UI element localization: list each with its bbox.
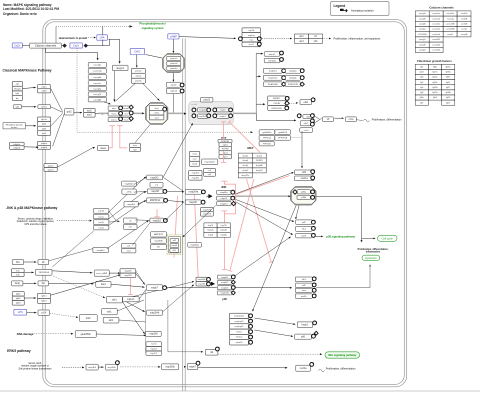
svg-text:mapk9: mapk9: [221, 198, 228, 200]
trunk arrow to mnk1 stack: [256, 103, 264, 105]
svg-text:pla2g4b: pla2g4b: [289, 78, 297, 80]
ligands pdgf stack: [10, 142, 25, 149]
svg-text:map2k5b: map2k5b: [165, 367, 175, 369]
wire tak1 to map2k3: [122, 282, 193, 299]
svg-text:fgfr1a: fgfr1a: [41, 118, 47, 121]
state diamond atf6: [314, 331, 318, 335]
receptor tgfbr stack: [38, 293, 51, 303]
wire LPA elbow to rasgrp: [108, 39, 119, 62]
wire dotted G-protein to LPA: [87, 37, 97, 39]
svg-text:mapk10: mapk10: [220, 203, 228, 205]
svg-text:rac1b: rac1b: [98, 221, 104, 224]
svg-text:PPP3CA: PPP3CA: [263, 137, 272, 140]
svg-text:cd14: cd14: [41, 313, 47, 315]
svg-text:mapk7: mapk7: [189, 366, 197, 368]
svg-text:Serum, cytotoxic drugs, irradi: Serum, cytotoxic drugs, irradiation,: [18, 217, 54, 220]
svg-text:igf1ra: igf1ra: [42, 106, 48, 109]
state circle rap1 top left: [239, 37, 243, 41]
arrow into p38 stack: [211, 282, 215, 286]
svg-text:fgf12: fgf12: [446, 87, 450, 89]
state circles elk cluster: [297, 114, 301, 118]
gene ecsit variant: [94, 270, 109, 276]
kinase mapkapk stack: [230, 313, 249, 345]
gene tab1: [102, 309, 118, 315]
svg-text:map2k1: map2k1: [199, 110, 207, 112]
svg-text:cacna1aa: cacna1aa: [432, 13, 440, 15]
svg-text:mapkapk5: mapkapk5: [235, 326, 244, 328]
svg-text:elk1: elk1: [299, 36, 304, 38]
backbone thick line ras-raf: [98, 112, 143, 114]
kinase map2k4a: [185, 190, 201, 195]
kinase map4k1: [93, 248, 109, 253]
svg-text:fgf8: fgf8: [420, 92, 423, 94]
svg-text:traf2: traf2: [86, 317, 91, 320]
svg-text:smad4: smad4: [172, 245, 178, 247]
svg-text:Proliferation, differentiation: Proliferation, differentiation: [326, 368, 356, 371]
wire p38 stack to tf arrow up: [235, 238, 289, 276]
wire dashed stress to cdc42: [57, 220, 90, 222]
state circle map3k2: [164, 219, 168, 223]
wire Ca2+ to LPA elbow: [88, 39, 109, 45]
tf cfos box: [300, 128, 313, 133]
svg-text:MAP3K12: MAP3K12: [150, 199, 161, 202]
svg-text:gadd45?b: gadd45?b: [278, 132, 288, 134]
wire mekk2 to mekk3: [98, 366, 103, 368]
wire trunk to elk cluster: [256, 113, 294, 120]
svg-text:tab1: tab1: [107, 311, 112, 314]
svg-text:atf6: atf6: [301, 336, 306, 339]
svg-text:Apoptosis: Apoptosis: [365, 256, 377, 260]
svg-text:hrasa: hrasa: [123, 107, 129, 110]
wire fgf to fgfr: [26, 125, 36, 127]
svg-text:cacng2a: cacng2a: [93, 88, 102, 90]
gene map4k 2-stack: [189, 171, 202, 181]
svg-text:mknk2b: mknk2b: [268, 60, 276, 62]
wire JNK to tf group: [184, 206, 216, 237]
wire channels to cacng stack: [46, 48, 98, 59]
svg-text:inflammation: inflammation: [366, 251, 381, 254]
svg-text:map2k7b: map2k7b: [203, 214, 212, 216]
wire tgfb to tgfbr: [24, 297, 36, 299]
svg-text:map2k4b: map2k4b: [150, 313, 160, 315]
svg-text:nrasa: nrasa: [111, 113, 117, 116]
gene crk small: [150, 182, 163, 187]
state circles mapkapk: [249, 314, 253, 318]
inhibition red mkp to pincer right: [247, 179, 272, 262]
svg-text:heatshock, reactive oxygen spe: heatshock, reactive oxygen species,: [17, 220, 55, 223]
kinase PKC stack: [131, 68, 145, 83]
svg-text:cacng1: cacng1: [461, 29, 467, 31]
svg-text:cacnb3b: cacnb3b: [461, 18, 468, 20]
svg-text:fgf21: fgf21: [420, 72, 424, 74]
svg-text:grb2: grb2: [67, 111, 72, 114]
svg-text:cacnb4b: cacnb4b: [461, 24, 468, 26]
backbone thick line scaffold-trunk: [233, 112, 257, 114]
inhibition red map2k4a down 2: [194, 195, 198, 281]
svg-text:MKP: MKP: [247, 146, 253, 150]
receptor tnfrsf1a: [35, 269, 52, 275]
svg-text:fgf24: fgf24: [446, 82, 450, 84]
svg-text:daxx: daxx: [101, 283, 107, 286]
link Wnt signaling pathway: [325, 352, 360, 358]
node Ca2+ inside: [70, 43, 83, 48]
svg-text:cacng2a: cacng2a: [419, 39, 426, 41]
kinase p38 isoform stack: [217, 275, 232, 279]
svg-text:signaling system: signaling system: [142, 26, 164, 30]
svg-text:egf: egf: [16, 84, 19, 86]
svg-text:ecsit_va8B8: ecsit_va8B8: [96, 272, 108, 275]
wire mapk7 to mef2: [198, 366, 286, 369]
svg-text:ERK5 pathway: ERK5 pathway: [7, 349, 31, 353]
svg-text:LPA: LPA: [100, 36, 105, 40]
receptor igf1r: [38, 105, 51, 109]
svg-text:sos2: sos2: [87, 115, 93, 117]
svg-text:prkcg: prkcg: [136, 75, 142, 78]
svg-text:map3k7: map3k7: [151, 191, 160, 193]
svg-text:crk: crk: [208, 170, 211, 172]
gene table fgf: [415, 64, 455, 105]
state circle hspb1: [313, 321, 317, 325]
svg-text:map2k1: map2k1: [269, 71, 278, 73]
svg-text:p38 signaling pathway: p38 signaling pathway: [326, 234, 355, 238]
svg-text:mos: mos: [133, 145, 137, 147]
svg-text:Proliferation, differentiation: Proliferation, differentiation,: [358, 248, 389, 251]
svg-text:map2k2a: map2k2a: [268, 78, 278, 80]
svg-text:dusp1: dusp1: [243, 155, 249, 157]
svg-text:PPP3R1B: PPP3R1B: [278, 138, 288, 140]
svg-text:Fibroblast growth: Fibroblast growth: [6, 123, 24, 126]
svg-text:cacna1da: cacna1da: [432, 29, 440, 31]
svg-text:map4k6: map4k6: [192, 178, 200, 180]
gene mapk7 box: [147, 285, 163, 291]
wire dotted-line stub to LPA top: [102, 26, 104, 34]
svg-text:rap1b: rap1b: [248, 29, 254, 32]
svg-text:fgf10a: fgf10a: [433, 77, 438, 79]
state circle MAP3K12: [164, 199, 168, 203]
receptor il1r: [38, 260, 49, 265]
wire dotted to PI signaling: [56, 25, 129, 27]
gene tab2: [103, 317, 119, 323]
wires adapters to erk5 column: [135, 273, 144, 284]
receptor LPA: [97, 35, 108, 40]
receptor cd14: [38, 310, 50, 315]
svg-text:srf: srf: [327, 118, 330, 121]
kinase JNK stack: [217, 190, 232, 194]
svg-text:rhoab: rhoab: [192, 163, 198, 165]
svg-text:cacng7b: cacng7b: [93, 94, 102, 96]
hsc70 stack: [146, 342, 162, 347]
inhibition red mkp to p38 stack: [230, 179, 254, 271]
svg-text:cacna2d2: cacna2d2: [432, 39, 440, 41]
wire mapkapk to atf6: [254, 330, 291, 336]
svg-text:tgfbr1: tgfbr1: [41, 295, 47, 298]
svg-text:cacng4b: cacng4b: [93, 77, 102, 79]
wire cAMP to rap1 stack: [179, 37, 234, 39]
wires map3k to map2k4: [167, 190, 183, 192]
svg-text:cacna2d4: cacna2d4: [432, 44, 440, 46]
svg-text:rap1aa: rap1aa: [248, 34, 256, 37]
trunk arrow to mnk: [256, 53, 261, 55]
adapter 2stack low: [122, 243, 136, 248]
receptor fgfr stack: [38, 117, 51, 135]
svg-text:fgf20a: fgf20a: [446, 67, 451, 69]
svg-text:gna13: gna13: [48, 169, 55, 171]
svg-text:mapk1: mapk1: [220, 116, 227, 118]
state diamond p38: [293, 190, 297, 194]
svg-text:cacna1sb: cacna1sb: [432, 34, 440, 36]
wire elbow into nlk: [168, 300, 201, 352]
gene ras column 2: [121, 106, 130, 110]
RAF subunits: [149, 106, 164, 120]
svg-text:cdc42: cdc42: [98, 211, 105, 213]
svg-text:creb1a: creb1a: [301, 177, 309, 180]
kinase mapk3 in scaffold: [216, 108, 229, 112]
ligand tgfb stack: [12, 292, 24, 306]
svg-text:cacnb1: cacnb1: [447, 34, 453, 36]
receptor egfr stack: [38, 85, 51, 93]
svg-text:mapk8a: mapk8a: [220, 192, 228, 194]
tf srf box: [323, 117, 334, 122]
svg-text:DNA damage: DNA damage: [17, 332, 34, 336]
gene gadd45 table: [259, 130, 275, 135]
gene mekk3 box: [106, 364, 118, 370]
svg-text:mef2c: mef2c: [301, 296, 308, 298]
ligands egf stack: [12, 81, 22, 100]
svg-text:fgf5: fgf5: [420, 82, 423, 84]
node cAMP: [168, 34, 179, 39]
scaffold container: [189, 101, 234, 124]
svg-text:dusp2: dusp2: [257, 155, 263, 157]
wire dotted nlk to wnt: [218, 353, 319, 355]
wire mapk7 down: [145, 291, 147, 353]
wire cAMP down to PKA: [172, 39, 174, 52]
svg-text:Organism: Danio rerio: Organism: Danio rerio: [3, 12, 37, 16]
tf atf2 box1: [295, 170, 314, 175]
wire JNK to atf stack low: [236, 200, 293, 222]
gene tak1: [107, 297, 123, 303]
complex PKA octagon: [162, 54, 184, 73]
gene map2k5 bottom: [162, 364, 179, 370]
svg-text:cacng8b: cacng8b: [93, 99, 102, 101]
bottom separator line: [0, 390, 480, 392]
svg-text:p38a: p38a: [301, 192, 307, 194]
svg-text:tab2: tab2: [109, 319, 114, 322]
state circle atf6: [312, 334, 316, 338]
wire p38 right elbow: [316, 197, 361, 241]
state circle mapk7: [163, 286, 167, 290]
trunk vertical line: [255, 53, 257, 113]
svg-text:il1r: il1r: [42, 261, 45, 264]
junction arrow to crk stack: [109, 211, 117, 221]
phosphatase PTP header: [218, 139, 232, 143]
svg-text:Cell cycle: Cell cycle: [382, 237, 394, 241]
ligand il1b: [12, 260, 23, 265]
svg-text:Phosphatidylinositol: Phosphatidylinositol: [139, 22, 166, 26]
node DAG: [130, 49, 145, 55]
wire LPA stub down: [102, 40, 104, 46]
ligand igf1: [13, 105, 21, 109]
receptor fas: [38, 281, 49, 286]
svg-text:PLA2G12B: PLA2G12B: [288, 83, 299, 86]
svg-text:dusp8b: dusp8b: [256, 165, 263, 167]
svg-text:mapkapk5: mapkapk5: [205, 162, 216, 164]
svg-text:rac1a: rac1a: [98, 215, 104, 218]
gene nlk box: [205, 349, 218, 355]
svg-text:kras: kras: [112, 107, 116, 110]
svg-text:rap1b: rap1b: [171, 84, 177, 87]
state circle raf: [163, 107, 167, 111]
wire cacng to ras: [104, 102, 110, 104]
kinase map3k13 stack: [151, 232, 167, 237]
svg-text:TNFRSF1A: TNFRSF1A: [39, 271, 50, 274]
state circle elk4: [311, 98, 315, 102]
svg-text:MAP3K13: MAP3K13: [154, 233, 164, 236]
inhibition red map2k4a down 1: [174, 196, 178, 258]
svg-text:prkacab: prkacab: [170, 63, 178, 65]
svg-text:crkl: crkl: [129, 227, 133, 229]
svg-text:Proliferation, differentiation: Proliferation, differentiation: [372, 118, 402, 121]
backbone thick line raf-scaffold: [168, 112, 184, 114]
link p38 signaling pathway: [316, 235, 321, 237]
svg-text:UPS and other stress: UPS and other stress: [24, 223, 47, 226]
backbone thick jnk-p38 line: [236, 195, 289, 197]
inhibition red mos to ras: [120, 126, 128, 148]
p38 subunit b: [297, 195, 310, 199]
svg-text:JNK & p38 MAPKinase pathway: JNK & p38 MAPKinase pathway: [6, 206, 57, 210]
wire fos to squiggle: [356, 120, 363, 121]
gene elk4 box: [300, 100, 311, 105]
svg-text:Srk tyrosine kinase downstream: Srk tyrosine kinase downstream: [19, 368, 52, 371]
svg-text:mras: mras: [124, 118, 129, 121]
squiggle bottom: [319, 369, 325, 372]
svg-text:cacna1g: cacna1g: [447, 18, 454, 20]
tf cfos2 box: [346, 117, 357, 122]
svg-text:map3k3: map3k3: [88, 367, 97, 369]
kinase map2k2 in scaffold: [198, 114, 208, 118]
wire ca to channels: [22, 45, 29, 47]
cell membrane inner: [45, 22, 404, 385]
svg-text:mapk12: mapk12: [221, 282, 229, 284]
state circles pla2 col: [300, 69, 304, 73]
kinase mapk1 in scaffold: [216, 114, 229, 118]
svg-text:mapkapk3: mapkapk3: [235, 321, 244, 323]
wire dotted mnk to elk4: [290, 102, 297, 104]
svg-text:PPP3CB: PPP3CB: [263, 143, 272, 145]
nuclear membrane line inner: [184, 38, 186, 391]
gene rap1 stack top: [242, 28, 261, 47]
ligand fasl: [12, 281, 23, 286]
inhibition red pincer to p38 stack: [224, 214, 226, 270]
kinase map3k2: [150, 218, 164, 223]
svg-text:pdgfra: pdgfra: [41, 142, 48, 145]
tf 2x2 table: [295, 34, 323, 43]
svg-text:rap1ab: rap1ab: [170, 90, 178, 93]
svg-text:cacng3a: cacng3a: [93, 65, 102, 67]
svg-text:pdgfrb: pdgfrb: [41, 146, 48, 149]
svg-text:pea15: pea15: [204, 100, 211, 102]
svg-text:atf2: atf2: [173, 239, 176, 242]
wire dotted dna damage to p53: [33, 333, 71, 335]
kinase map2k1-pla2 col1: [264, 68, 283, 73]
svg-text:map2k4a: map2k4a: [189, 192, 199, 194]
svg-text:braf: braf: [155, 107, 159, 110]
svg-text:fgf7: fgf7: [420, 102, 423, 104]
svg-text:DUSP6: DUSP6: [256, 160, 264, 162]
wires receptors to adapters: [52, 271, 92, 273]
wire elk bracket to srf: [314, 116, 319, 119]
gene hspb1: [297, 322, 312, 328]
svg-text:mknk1: mknk1: [269, 54, 276, 56]
gene ras column 1: [108, 106, 119, 110]
gene mapk7 bottom: [187, 364, 198, 370]
svg-text:fgf23: fgf23: [446, 77, 450, 79]
svg-text:c-fos: c-fos: [349, 119, 355, 121]
kinase map2k3 pair: [196, 277, 207, 286]
svg-text:elk4: elk4: [299, 41, 304, 43]
legend box: [331, 2, 390, 16]
svg-text:hsp70l: hsp70l: [221, 225, 227, 227]
state circles rap1 top right: [257, 37, 261, 41]
wire dashed rap1 to tf table: [262, 38, 290, 40]
svg-text:hspa8b: hspa8b: [220, 235, 226, 237]
svg-text:hbegfa: hbegfa: [14, 88, 21, 90]
state circles ras middle: [119, 106, 123, 110]
gene map3k8: [146, 331, 162, 336]
gene daxx: [96, 281, 111, 287]
svg-text:pdgfab: pdgfab: [14, 147, 21, 149]
wire prkc to raf: [143, 83, 160, 101]
svg-text:mapk14a: mapk14a: [221, 293, 230, 295]
state circle nlk: [216, 347, 220, 351]
tf atf2 box2: [295, 176, 314, 181]
svg-text:fgf18b: fgf18b: [446, 92, 451, 94]
svg-text:map4k4: map4k4: [127, 204, 136, 206]
svg-text:map3k2b: map3k2b: [107, 367, 116, 369]
svg-text:reactive oxygen species or: reactive oxygen species or: [21, 365, 49, 368]
svg-text:Classical MAPKinase Pathway: Classical MAPKinase Pathway: [3, 69, 52, 73]
svg-text:fgf19: fgf19: [446, 102, 450, 104]
svg-text:fgf11b: fgf11b: [433, 82, 438, 84]
svg-text:hspa4b: hspa4b: [220, 230, 226, 232]
wire map3k1 to scaffold: [163, 124, 192, 177]
wire rap1 down to backbone: [172, 94, 174, 113]
svg-text:mapk8ip3: mapk8ip3: [125, 183, 135, 185]
channel Calcium channels: [30, 43, 62, 48]
gtpase cdc42 stack: [93, 209, 109, 214]
kinase map2k5 stack: [120, 269, 136, 278]
svg-text:mapk7: mapk7: [151, 287, 159, 290]
link Phosphatidylinositol signaling system: [130, 22, 166, 31]
svg-text:fgf8a: fgf8a: [420, 97, 424, 99]
kinase map3k7: [147, 189, 163, 194]
nuclear membrane line outer: [182, 38, 184, 391]
adapter grb2: [65, 109, 74, 115]
svg-text:cacng4b: cacng4b: [419, 18, 426, 20]
svg-text:dusp4: dusp4: [243, 160, 249, 162]
svg-text:Fibroblast growth factors: Fibroblast growth factors: [417, 59, 452, 63]
gene traf2: [79, 315, 97, 322]
state circles scaffold left: [192, 108, 196, 112]
svg-text:fgf13a: fgf13a: [433, 92, 438, 94]
gene mapkapk box A: [202, 159, 218, 165]
wire p53 to map3k8: [96, 334, 144, 335]
PKA subunits: [167, 56, 181, 60]
gene map2k4 low: [147, 310, 163, 315]
gene rasa1: [98, 146, 109, 151]
tf elk4 box: [300, 121, 311, 126]
gene table calcium channels: [415, 11, 471, 53]
wire map2k4b to map2k3: [163, 286, 193, 312]
